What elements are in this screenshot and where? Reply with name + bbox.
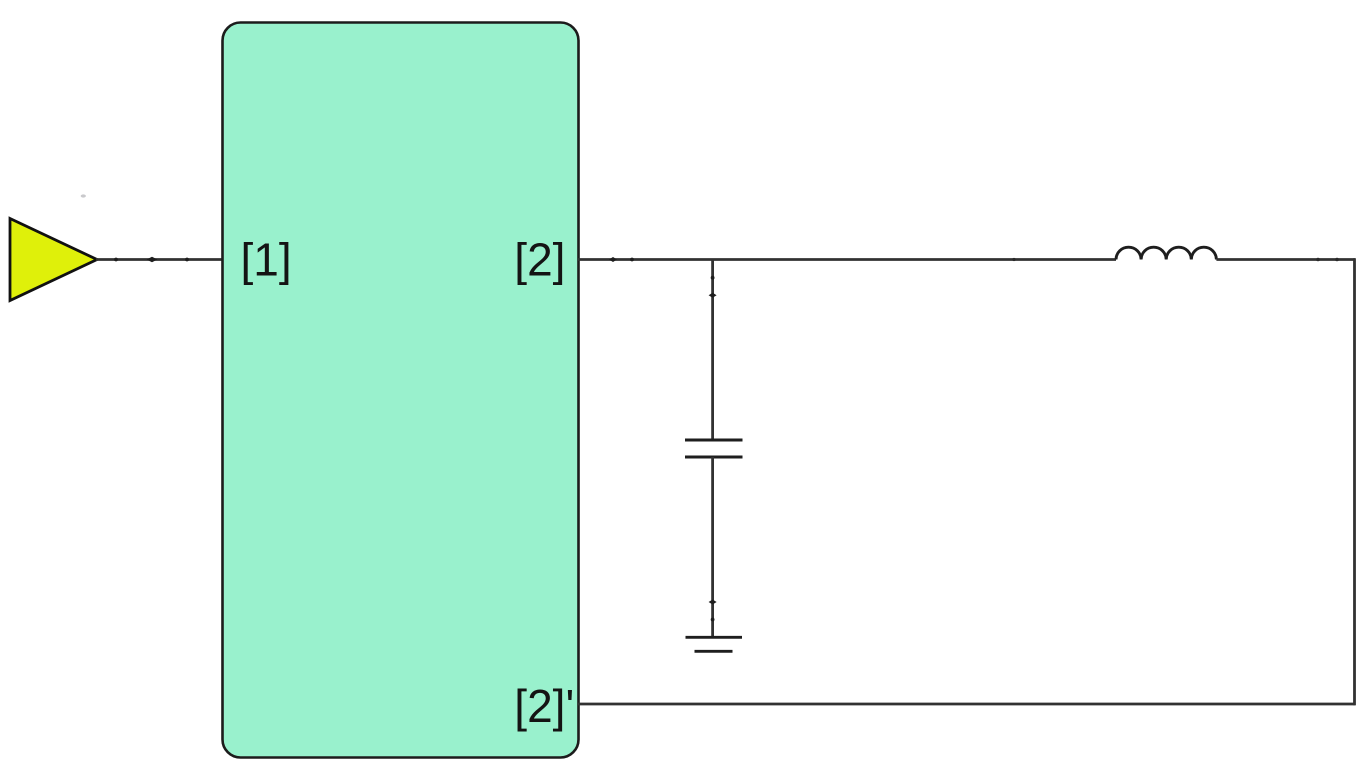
wire W3 dot mark 2: [1335, 258, 1339, 262]
ground symbol bar 2: [695, 650, 733, 653]
two-port network box U1: [223, 23, 579, 758]
inductor L1: [1116, 247, 1216, 259]
capacitor C1 bottom plate: [685, 456, 743, 459]
wire W2 faint dot mark: [1012, 258, 1015, 261]
svg-text:[2]': [2]': [514, 680, 574, 732]
wire W1 midpoint arrow mark: [147, 257, 158, 262]
wire W5 bottom return to pin [2]': [578, 703, 1356, 706]
ground wire dot mark: [711, 618, 715, 622]
wire W3 from inductor to right corner: [1216, 258, 1355, 261]
wire W2 dot mark: [630, 258, 634, 262]
wire W1 dot mark right: [185, 258, 189, 262]
ground wire arrow mark: [709, 600, 717, 605]
port P1 input source triangle: [10, 219, 97, 301]
node junction at capacitor branch: [711, 260, 714, 442]
wire W1 dot mark left: [114, 258, 118, 262]
wire W3 dot mark: [1316, 258, 1320, 262]
wire W6 capacitor to ground: [711, 457, 714, 638]
ground symbol bar 1: [686, 636, 743, 639]
junction branch arrow mark: [709, 293, 717, 298]
junction branch dot mark: [711, 276, 715, 280]
svg-text:[2]: [2]: [514, 234, 565, 286]
wire W4 right vertical: [1353, 258, 1356, 705]
wire W2 from box pin [2] to inductor: [578, 258, 1116, 261]
wire W1 from P1 to box pin [1]: [96, 258, 223, 261]
wire W2 arrow mark: [609, 257, 617, 262]
capacitor C1 top plate: [685, 439, 743, 442]
svg-text:[1]: [1]: [241, 234, 292, 286]
faint stray speck: [81, 194, 86, 197]
